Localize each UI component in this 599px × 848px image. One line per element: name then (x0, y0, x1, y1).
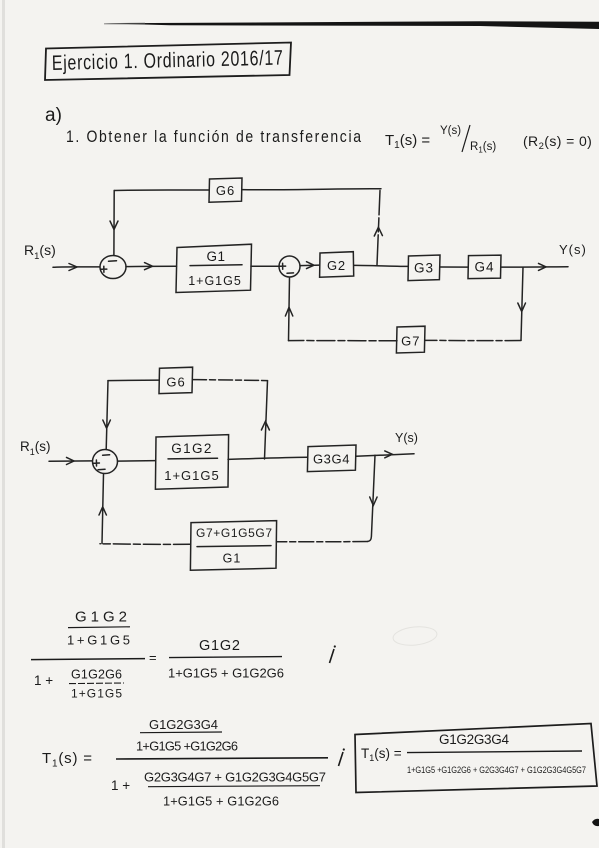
svg-text:G6: G6 (166, 375, 185, 390)
svg-text:1 +: 1 + (34, 673, 53, 688)
svg-text:G1G2: G1G2 (199, 638, 240, 654)
block G7 (396, 326, 425, 353)
wire up into S2 (289, 277, 290, 340)
svg-text:Y(s): Y(s) (559, 242, 587, 257)
summing junction S2 (279, 256, 300, 277)
svg-text:R1(s): R1(s) (24, 242, 56, 262)
eq A RHS bar (169, 657, 282, 658)
svg-text:1+G1G5: 1+G1G5 (71, 687, 122, 701)
svg-text:1+G1G5: 1+G1G5 (67, 633, 130, 648)
wire S2 to G2 (300, 264, 319, 267)
block G2 (320, 252, 354, 278)
block G3G4 (307, 445, 356, 472)
svg-text:G2G3G4G7 + G1G2G3G4G5G7: G2G3G4G7 + G1G2G3G4G5G7 (144, 770, 326, 785)
svg-text:1+G1G5 + G1G2G6: 1+G1G5 + G1G2G6 (163, 794, 279, 809)
wire pickoff down to G7 line (521, 267, 523, 340)
svg-text:G3G4: G3G4 (313, 452, 350, 467)
scan artifact: top black bar (104, 21, 599, 29)
heading line 1 (66, 128, 361, 146)
svg-text:1+G1G5 + G1G2G6: 1+G1G5 + G1G2G6 (168, 666, 284, 681)
svg-text:G4: G4 (474, 260, 494, 275)
svg-text:G7+G1G5G7: G7+G1G5G7 (196, 526, 272, 540)
eq B main bar (116, 758, 328, 759)
wire top feedback right segment (242, 189, 381, 190)
scan artifact: faint erased scribble (392, 625, 438, 648)
wire top feedback right segment (193, 380, 268, 381)
wire output Y(s) with pickoff (501, 266, 568, 268)
wire S1 to G1 (126, 265, 177, 267)
summing junction S1 (100, 256, 126, 279)
node R1(s) input label (20, 439, 51, 457)
block (G7+G1G5G7)/G1 (190, 521, 276, 571)
wire bottom feedback right segment (425, 339, 521, 341)
svg-text:(R2(s) = 0): (R2(s) = 0) (523, 133, 592, 152)
eq A trailing semicolon mark (330, 649, 335, 663)
wire bottom feedback left segment (289, 340, 398, 342)
title box (45, 43, 291, 81)
svg-text:G1: G1 (223, 552, 242, 566)
svg-text:1+G1G5 +G1G2G6: 1+G1G5 +G1G2G6 (136, 739, 238, 754)
svg-text:1+G1G5: 1+G1G5 (164, 468, 220, 483)
svg-text:G7: G7 (401, 334, 420, 349)
svg-text:R1(s): R1(s) (470, 141, 496, 155)
wire bottom feedback right segment (277, 541, 368, 543)
block G4 (468, 255, 501, 279)
svg-text:G1: G1 (206, 249, 225, 264)
block G3 (408, 255, 440, 281)
svg-text:G1G2G6: G1G2G6 (71, 668, 122, 682)
wire bottom rise into S3 (102, 474, 104, 544)
scan artifact: left edge streak (2, 0, 5, 848)
wire input to S3 (49, 460, 92, 462)
summing junction S3 (93, 450, 118, 474)
wire G1 to S2 (251, 265, 279, 267)
svg-text:=: = (149, 650, 157, 665)
wire pickoff down to bottom feedback (368, 455, 375, 541)
svg-text:G1G2G3G4: G1G2G3G4 (149, 717, 218, 732)
wire bottom feedback left segment (100, 543, 190, 546)
wire S3 to block (118, 460, 156, 463)
svg-text:T1(s) =: T1(s) = (361, 746, 402, 763)
result bar (407, 751, 582, 753)
svg-text:G3: G3 (414, 261, 434, 276)
wire pickoff up to G6 line (377, 191, 380, 265)
T1(s) = Y(s)/R1(s) (385, 125, 496, 155)
svg-text:G2: G2 (327, 258, 346, 273)
svg-text:a): a) (45, 105, 62, 126)
svg-text:Y(s): Y(s) (440, 125, 461, 137)
node Y(s) output label (559, 242, 587, 257)
wire output Y(s) with pickoff (356, 454, 414, 457)
svg-text:R1(s): R1(s) (20, 439, 51, 457)
wire pickoff up to G6 line (265, 381, 268, 459)
wire top feedback left segment (114, 189, 209, 192)
svg-text:1+G1G5: 1+G1G5 (188, 274, 242, 288)
block G1G2 / (1+G1G5) (155, 435, 228, 490)
block G1 / (1+G1G5) (176, 244, 252, 292)
svg-text:Ejercicio 1. Ordinario 2016/1: Ejercicio 1. Ordinario 2016/17 (52, 45, 284, 74)
wire G6 feedback drop into S1 (113, 191, 115, 256)
wire block to G3G4 with pickoff (228, 457, 308, 459)
block G6 (209, 178, 242, 202)
wire G2 to G3 with pickoff (354, 265, 408, 266)
svg-text:1+G1G5 +G1G2G6 + G2G3G4G7 + G1: 1+G1G5 +G1G2G6 + G2G3G4G7 + G1G2G3G4G5G7 (407, 765, 586, 775)
svg-text:T1(s) =: T1(s) = (385, 132, 430, 151)
svg-text:G6: G6 (216, 183, 235, 198)
result box frame (355, 724, 597, 793)
svg-text:T1(s) =: T1(s) = (42, 750, 93, 770)
wire top feedback left segment (108, 379, 159, 382)
svg-text:1. Obtener la función de t: 1. Obtener la función de transferencia (66, 128, 361, 146)
svg-text:Y(s): Y(s) (395, 431, 418, 445)
svg-text:G1G2: G1G2 (171, 441, 213, 456)
scan artifact: bottom right blob (592, 819, 599, 826)
node Y(s) output label (395, 431, 418, 445)
eq A main fraction bar (31, 659, 145, 660)
svg-text:G1G2G3G4: G1G2G3G4 (439, 732, 509, 747)
eq B trailing semicolon mark (339, 752, 344, 766)
node R1(s) input label (24, 242, 56, 262)
title text (52, 45, 284, 74)
block G6 (159, 367, 193, 393)
wire G6 drop into S3 (106, 381, 108, 450)
wire G3 to G4 (440, 266, 468, 268)
svg-text:1 +: 1 + (111, 778, 130, 793)
wire input to S1 (53, 266, 100, 268)
svg-text:G1G2: G1G2 (75, 609, 127, 626)
